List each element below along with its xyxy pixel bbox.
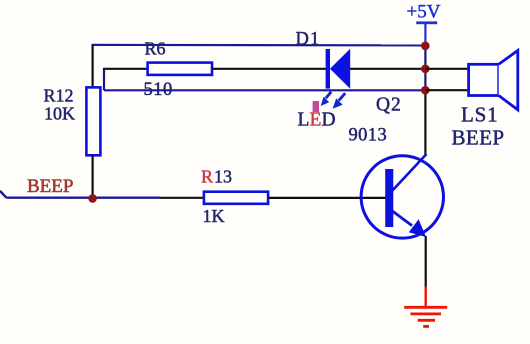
svg-text:+5V: +5V	[407, 2, 441, 23]
wire vertical from row1 corner down to R12 top	[91, 44, 93, 88]
svg-text:D: D	[322, 110, 336, 131]
svg-text:LS1: LS1	[461, 103, 498, 127]
transistor Q2 collector line	[392, 154, 427, 192]
wire R13 to transistor base	[268, 197, 386, 199]
transistor Q2 base bar	[385, 169, 393, 227]
transistor Q2 circle	[361, 156, 443, 238]
svg-text:L: L	[298, 110, 310, 131]
LED arrow 1	[321, 92, 332, 106]
junction dot at BEEP node	[88, 194, 97, 203]
svg-text:D1: D1	[296, 30, 321, 50]
power symbol +5V bar	[416, 21, 437, 45]
svg-text:Q2: Q2	[376, 95, 402, 116]
label R13	[201, 167, 232, 187]
junction dot row2	[421, 65, 430, 74]
svg-text:R12: R12	[44, 86, 74, 106]
wire R12 bottom to BEEP junction	[91, 155, 93, 198]
svg-text:R: R	[201, 167, 213, 187]
label LED	[298, 110, 336, 131]
svg-text:BEEP: BEEP	[452, 126, 505, 150]
transistor Q2 emitter line with arrow	[392, 211, 426, 237]
svg-text:E: E	[310, 110, 322, 131]
resistor R13	[204, 192, 268, 204]
diode D1 triangle	[330, 49, 350, 89]
svg-text:10K: 10K	[44, 104, 75, 124]
wire BEEP entry diagonal at left edge	[0, 191, 6, 198]
svg-text:BEEP: BEEP	[27, 176, 73, 197]
resistor R6	[148, 63, 212, 75]
svg-text:13: 13	[214, 167, 232, 187]
svg-text:1K: 1K	[203, 206, 225, 226]
wire +5V bus vertical down to collector	[424, 45, 426, 90]
LED arrow 2	[333, 93, 346, 109]
wire BEEP horizontal navy segment	[6, 196, 160, 198]
resistor R12	[86, 87, 100, 155]
wire row2 from D1 to bus	[350, 68, 425, 70]
wire row3 from corner to +5V bus	[104, 89, 425, 91]
speaker LS1 body	[469, 51, 518, 110]
junction dot row1	[421, 42, 430, 51]
wire L-corner joining row2 and row3	[103, 69, 105, 91]
wire row2 left segment to R6	[103, 68, 148, 70]
wire speaker top pin	[425, 68, 468, 70]
wire top bus row1 from R12 corner to +5V junction	[93, 44, 426, 47]
diode D1 cathode bar	[326, 49, 330, 89]
ground symbol	[404, 287, 447, 327]
wire row2 from R6 to D1 cathode	[212, 68, 327, 70]
magenta marker above LED text	[313, 101, 319, 112]
wire BEEP horizontal black segment to R13	[160, 197, 204, 199]
wire speaker bottom pin	[425, 89, 468, 91]
svg-text:9013: 9013	[349, 126, 388, 146]
junction dot row3	[421, 86, 430, 95]
wire emitter down to ground	[425, 236, 427, 287]
svg-text:R6: R6	[145, 39, 166, 59]
